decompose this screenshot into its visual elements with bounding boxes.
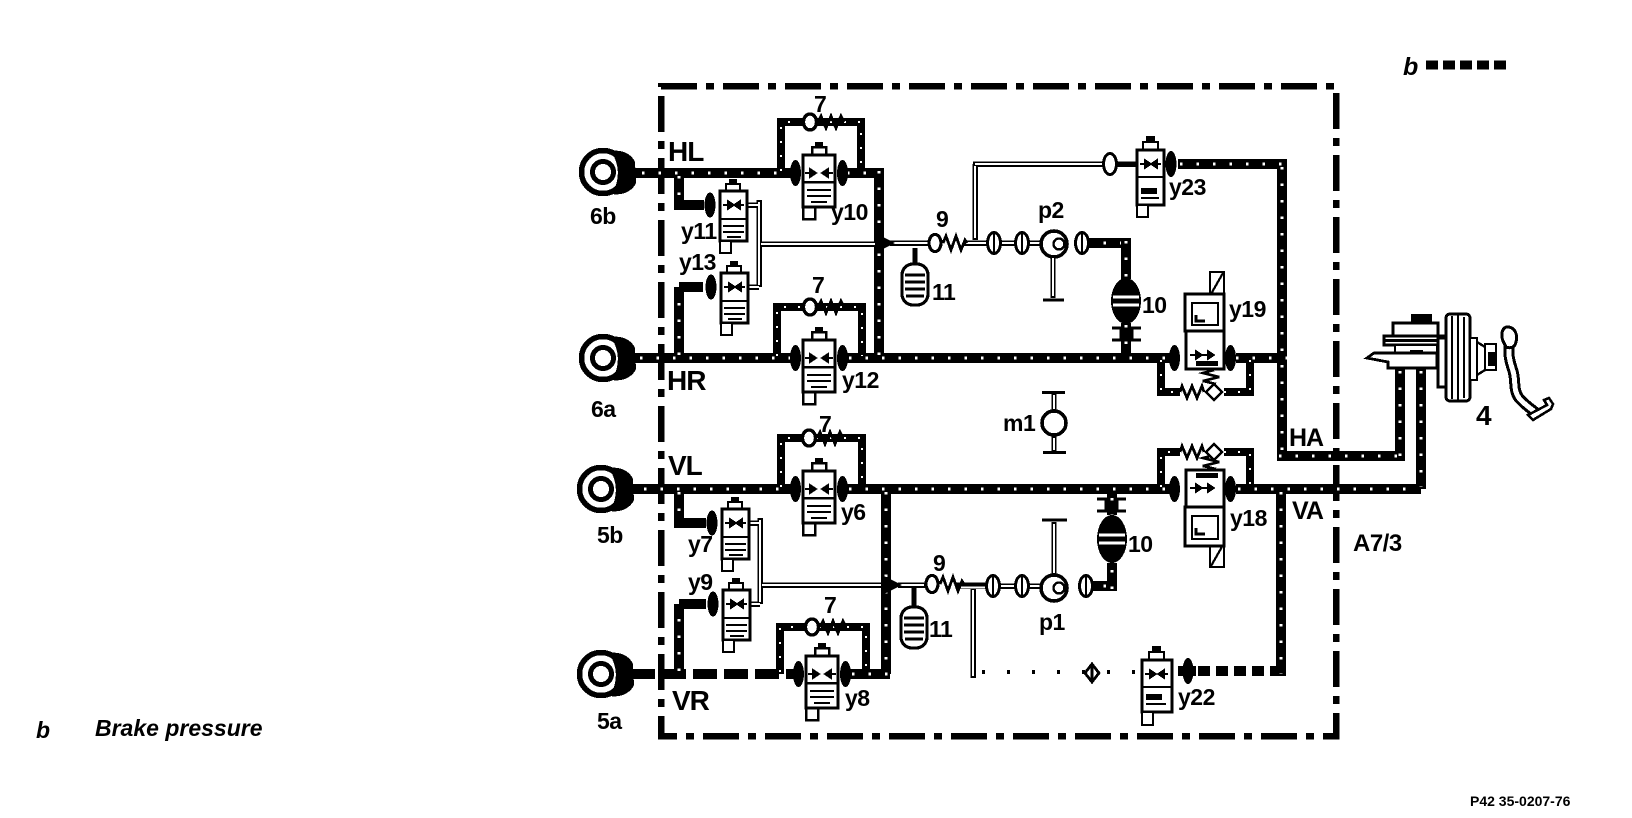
inlet valve y12 — [790, 327, 848, 404]
outlet valve y13 — [706, 261, 749, 335]
svg-text:7: 7 — [819, 411, 831, 437]
wire bypass loop under y19 — [1161, 358, 1250, 392]
pressure accumulator 10 rear — [1111, 278, 1141, 340]
junction arrow front — [884, 576, 902, 594]
svg-text:y13: y13 — [679, 249, 716, 275]
svg-text:p1: p1 — [1039, 609, 1066, 635]
svg-text:y19: y19 — [1229, 296, 1266, 322]
svg-text:6a: 6a — [591, 396, 616, 422]
svg-text:10: 10 — [1128, 531, 1153, 557]
wire VR line right of y8 — [850, 669, 890, 679]
wire bypass loop over y18 — [1161, 452, 1250, 489]
inlet valve y6 — [790, 458, 848, 535]
switch valve y23 — [1104, 136, 1177, 217]
wire HR main line — [633, 353, 791, 363]
svg-text:6b: 6b — [590, 203, 616, 229]
svg-text:y18: y18 — [1230, 505, 1268, 531]
wheel 6a — [582, 337, 637, 381]
wire VL main line mid — [847, 484, 1170, 494]
wire branch to valve y23 — [973, 164, 1137, 240]
wire bypass loop 7 over y8 — [780, 627, 866, 674]
svg-text:y7: y7 — [688, 531, 713, 557]
wire bypass loop 7 over y10 — [781, 122, 861, 173]
svg-text:y11: y11 — [681, 218, 717, 244]
svg-text:VR: VR — [672, 685, 710, 716]
motor m1 — [1042, 393, 1066, 453]
svg-text:Brake pressure: Brake pressure — [95, 715, 263, 741]
svg-text:11: 11 — [932, 279, 956, 305]
wire VA riser to master cylinder — [1416, 368, 1426, 489]
wire pump p1 outlet — [1085, 489, 1112, 591]
wire HA riser to master cylinder — [1395, 368, 1405, 461]
wire vertical front collector — [1276, 489, 1286, 676]
svg-text:y6: y6 — [841, 499, 866, 525]
svg-text:y12: y12 — [842, 367, 879, 393]
pressure accumulator 10 front — [1097, 499, 1127, 563]
check valve front suction with spring 9 — [926, 576, 964, 593]
svg-text:10: 10 — [1142, 292, 1167, 318]
svg-text:b: b — [1403, 53, 1418, 81]
check valve rear suction with spring 9 — [929, 235, 967, 252]
svg-text:7: 7 — [814, 91, 826, 117]
wire branch HR to valve y13 — [679, 287, 703, 358]
check valve on loop 7 HR with spring — [804, 299, 845, 315]
wire front suction line to pump p1 — [898, 585, 1044, 586]
svg-text:HA: HA — [1289, 424, 1324, 452]
svg-text:y9: y9 — [688, 569, 713, 595]
pump p1 — [1041, 520, 1067, 601]
wire thin return y11/y13 to junction — [746, 200, 877, 287]
outlet valve y11 — [705, 179, 748, 253]
wheel 5a — [580, 653, 635, 697]
brake pedal — [1502, 327, 1553, 420]
wire VA line right of y18 — [1236, 484, 1421, 494]
wire VL line from wheel 5b — [631, 484, 791, 494]
svg-text:P42 35-0207-76: P42 35-0207-76 — [1470, 793, 1571, 809]
wire y23 outlet line — [1178, 159, 1287, 169]
check valves rear pump inlet — [988, 233, 1029, 254]
wire vertical rear collector — [1277, 164, 1287, 456]
svg-text:VL: VL — [668, 450, 703, 481]
regulator valve y18 — [1169, 444, 1236, 567]
svg-text:4: 4 — [1476, 400, 1492, 431]
check valves front pump inlet — [987, 576, 1029, 597]
svg-text:p2: p2 — [1038, 197, 1064, 223]
unit boundary A7/3 dash-dot frame — [661, 86, 1336, 736]
outlet valve y7 — [707, 497, 750, 571]
wire faint dotted line to y22 — [982, 670, 1136, 674]
wire HA line — [1277, 451, 1400, 461]
wire texture speckles on loops — [777, 122, 1250, 672]
wire vertical VL to VR junction — [881, 489, 891, 674]
wire pump p2 outlet — [1085, 238, 1126, 358]
wire rear suction line to pump p2 — [890, 240, 1044, 246]
svg-text:y22: y22 — [1178, 684, 1215, 710]
wire y22 line dashed — [1178, 666, 1196, 676]
inlet valve y8 — [793, 643, 851, 720]
pump p2 — [1041, 231, 1067, 300]
wire front drain line — [958, 586, 988, 678]
svg-text:b: b — [36, 717, 50, 743]
svg-text:HL: HL — [668, 136, 704, 167]
check valve on loop 7 VL with spring — [803, 430, 844, 446]
wire texture speckles on thick lines — [640, 164, 1421, 674]
inlet valve y10 — [790, 142, 848, 219]
check valve on loop 7 HL with spring — [804, 114, 845, 130]
svg-text:9: 9 — [933, 550, 945, 576]
wire vertical HL to HR junction — [874, 168, 884, 358]
wire HL line from wheel 6b — [633, 168, 791, 178]
svg-text:11: 11 — [929, 616, 953, 642]
junction arrow rear — [877, 234, 895, 252]
accumulator 11 front — [901, 588, 927, 648]
outlet valve y9 — [708, 578, 751, 652]
check valve front pump outlet — [1080, 576, 1093, 597]
wire branch HL to valve y11 — [679, 173, 704, 205]
wheel 5b — [580, 468, 635, 512]
svg-text:HR: HR — [667, 365, 706, 396]
check valve rear pump outlet — [1076, 233, 1089, 254]
svg-text:A7/3: A7/3 — [1353, 530, 1402, 557]
svg-text:5a: 5a — [597, 708, 622, 734]
wire bypass loop 7 over y12 — [777, 307, 862, 358]
svg-text:7: 7 — [812, 272, 824, 298]
legend b dash sample — [1426, 61, 1506, 70]
check valve on y22 return line — [1085, 664, 1099, 682]
switch valve y22 — [1142, 646, 1194, 725]
svg-text:y10: y10 — [831, 199, 868, 225]
svg-text:9: 9 — [936, 206, 948, 232]
wire HR main line mid — [847, 353, 1170, 363]
svg-text:VA: VA — [1292, 497, 1324, 525]
wire branch VL to valve y7 — [679, 489, 706, 523]
svg-text:m1: m1 — [1003, 410, 1036, 436]
wire VR line from wheel 5a dashed — [631, 669, 794, 679]
svg-text:7: 7 — [824, 592, 836, 618]
accumulator 11 rear — [902, 248, 928, 305]
wire branch VR to valve y9 — [679, 604, 706, 674]
wheel 6b — [582, 151, 637, 195]
master cylinder 4 with booster and pedal — [1367, 314, 1496, 401]
svg-text:y8: y8 — [845, 685, 870, 711]
regulator valve y19 — [1169, 272, 1236, 400]
svg-text:5b: 5b — [597, 522, 623, 548]
svg-text:y23: y23 — [1169, 174, 1206, 200]
wire thin return y7/y9 to junction — [749, 518, 883, 604]
check valve on loop 7 VR with spring — [806, 619, 847, 635]
wire HL line right of y10 — [847, 168, 879, 178]
wire bypass loop 7 over y6 — [781, 438, 862, 489]
wire HR main line right of y19 — [1236, 353, 1287, 363]
